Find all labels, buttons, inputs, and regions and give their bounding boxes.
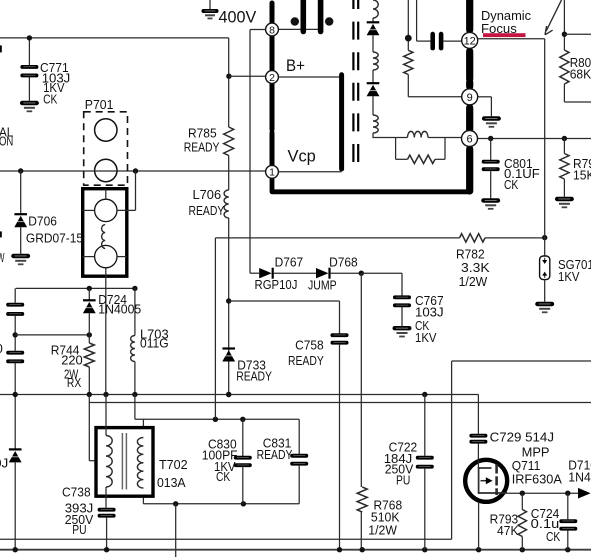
svg-text:C758: C758 [295,338,324,353]
svg-text:220: 220 [61,353,82,368]
svg-text:D767: D767 [275,254,304,269]
svg-text:ON: ON [0,133,13,148]
svg-text:W: W [0,250,5,265]
svg-text:READY: READY [189,203,225,218]
svg-text:C729 514J: C729 514J [490,430,554,445]
svg-text:400V: 400V [219,8,257,27]
svg-text:1/2W: 1/2W [459,274,488,289]
svg-text:6: 6 [466,133,472,145]
svg-text:2: 2 [269,72,275,84]
svg-text:011G: 011G [140,336,169,351]
svg-text:47K: 47K [497,523,519,538]
svg-text:CK: CK [43,92,57,107]
svg-text:013A: 013A [157,475,186,490]
svg-text:D768: D768 [329,254,358,269]
svg-text:8: 8 [269,24,275,36]
svg-text:RX: RX [67,375,81,390]
svg-text:READY: READY [257,447,293,462]
svg-text:GRD07-15: GRD07-15 [26,231,83,246]
svg-text:1N4005: 1N4005 [98,302,141,317]
svg-text:1/2W: 1/2W [368,523,397,538]
svg-text:15K: 15K [573,168,591,183]
svg-text:Vcp: Vcp [288,147,316,166]
svg-text:READY: READY [184,140,220,155]
svg-text:1N4937: 1N4937 [568,470,591,485]
svg-text:L706: L706 [193,187,222,202]
svg-text:9: 9 [467,92,473,104]
svg-text:READY: READY [236,369,272,384]
svg-text:RGP10J: RGP10J [255,277,298,292]
svg-text:JUMP: JUMP [308,278,337,293]
svg-text:3.3K: 3.3K [461,260,490,275]
svg-text:CK: CK [504,177,518,192]
svg-text:CK: CK [216,469,230,484]
svg-text:IRF630A: IRF630A [512,472,562,487]
svg-text:12: 12 [464,35,476,47]
svg-text:B+: B+ [286,56,305,75]
svg-text:R785: R785 [188,126,217,141]
svg-text:PU: PU [72,522,86,537]
svg-text:D706: D706 [28,214,57,229]
svg-text:1: 1 [269,167,275,179]
svg-text:CK: CK [546,529,560,544]
svg-text:1KV: 1KV [415,330,437,345]
svg-text:1KV: 1KV [558,269,580,284]
svg-text:Focus: Focus [481,21,517,36]
svg-text:P701: P701 [85,97,114,112]
svg-text:PU: PU [396,473,410,488]
svg-text:C738: C738 [62,484,91,499]
svg-text:0: 0 [0,341,3,356]
svg-text:68K: 68K [570,67,591,82]
svg-text:0J: 0J [0,456,8,471]
svg-text:T702: T702 [159,457,188,472]
svg-text:READY: READY [288,353,324,368]
